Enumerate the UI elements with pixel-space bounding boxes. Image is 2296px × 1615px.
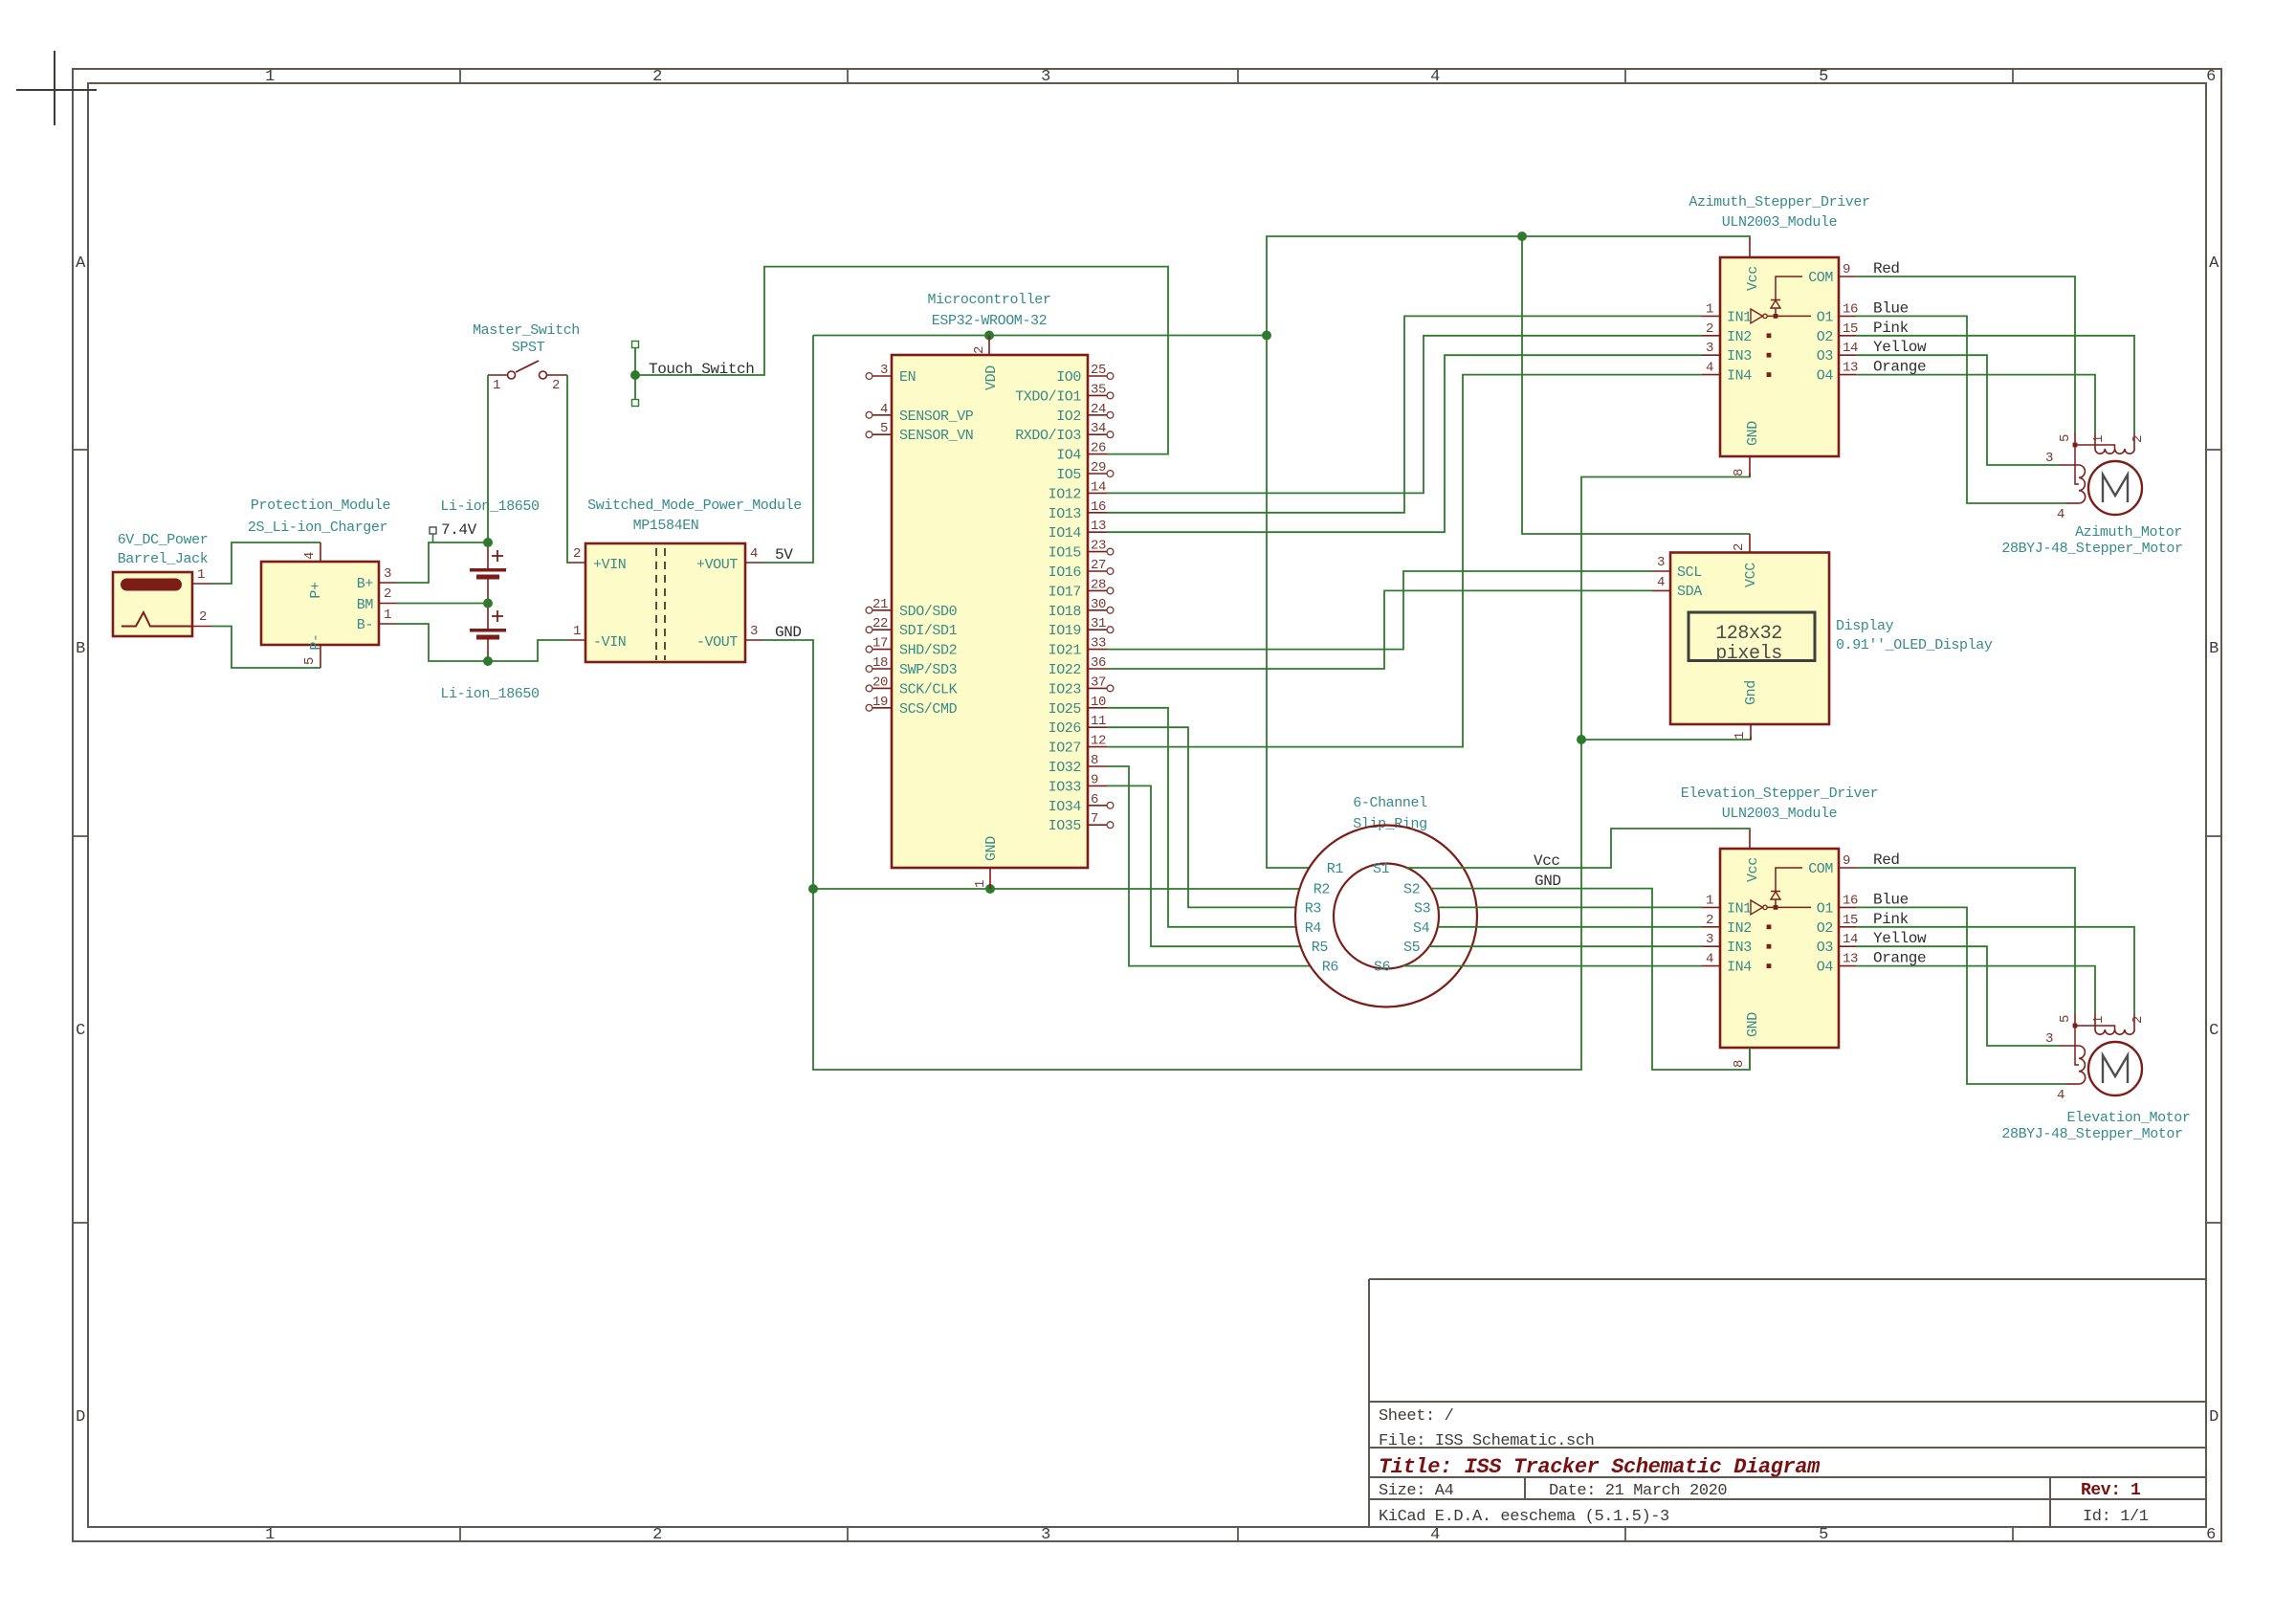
svg-text:Title: ISS Tracker Schematic D: Title: ISS Tracker Schematic Diagram xyxy=(1379,1455,1821,1479)
svg-text:S6: S6 xyxy=(1374,960,1391,976)
ESP32 pin 16 IO13 xyxy=(1088,512,1107,514)
svg-text:KiCad E.D.A. eeschema (5.1.5): KiCad E.D.A. eeschema (5.1.5)-3 xyxy=(1379,1508,1669,1526)
azimuth stepper driver U? input pins IN1-IN4 xyxy=(1702,315,1720,317)
svg-text:GND: GND xyxy=(1534,873,1561,890)
ESP32 pin 21 SDO/SD0 xyxy=(872,609,892,611)
svg-text:2: 2 xyxy=(1732,543,1747,551)
wire IO27 to azimuth IN4 xyxy=(1107,375,1702,747)
svg-text:IO32: IO32 xyxy=(1049,760,1081,776)
junction GND at ESP32 GND pin xyxy=(985,884,995,894)
svg-text:IN3: IN3 xyxy=(1727,940,1752,956)
wire IO12 to azimuth IN2 xyxy=(1107,336,1702,494)
svg-text:13: 13 xyxy=(1843,361,1858,376)
wire IO14 to azimuth IN3 xyxy=(1107,355,1702,532)
svg-text:30: 30 xyxy=(1091,597,1106,612)
ESP32 pin 9 IO33 xyxy=(1088,785,1107,786)
azimuth motor M? wire Red to pin5 xyxy=(1856,277,2075,432)
svg-text:IO14: IO14 xyxy=(1049,525,1082,542)
wire S1 to elevation Vcc xyxy=(1407,829,1750,868)
master switch pin 2 xyxy=(547,374,568,376)
ESP32 pin 20 SCK/CLK xyxy=(872,687,892,689)
svg-text:File: ISS Schematic.sch: File: ISS Schematic.sch xyxy=(1379,1432,1594,1450)
wire IO32 to slip ring R6 xyxy=(1107,766,1311,966)
azimuth motor M? wire Blue to pin4 xyxy=(1856,316,2065,503)
ESP32 pin 14 IO12 xyxy=(1088,492,1107,494)
svg-text:IO17: IO17 xyxy=(1049,584,1081,600)
protection pin 3 B+ xyxy=(379,582,396,584)
svg-text:9: 9 xyxy=(1843,853,1850,869)
slip ring inner circle xyxy=(1334,864,1439,969)
svg-text:8: 8 xyxy=(1091,753,1098,768)
master switch pin 1 xyxy=(488,374,508,376)
junction touch switch xyxy=(630,370,640,380)
svg-text:O2: O2 xyxy=(1817,329,1833,345)
azimuth stepper driver U? pin Vcc xyxy=(1749,238,1751,257)
svg-text:ESP32-WROOM-32: ESP32-WROOM-32 xyxy=(932,313,1047,329)
svg-text:22: 22 xyxy=(872,616,888,631)
slip ring outer circle xyxy=(1295,826,1477,1007)
svg-text:S1: S1 xyxy=(1373,861,1390,877)
svg-text:2: 2 xyxy=(573,546,581,562)
svg-text:19: 19 xyxy=(872,695,888,710)
svg-text:IO0: IO0 xyxy=(1056,369,1081,386)
svg-text:B-: B- xyxy=(357,617,373,633)
svg-text:SWP/SD3: SWP/SD3 xyxy=(899,662,958,678)
svg-text:IO23: IO23 xyxy=(1049,681,1082,697)
svg-text:IN1: IN1 xyxy=(1727,309,1752,325)
barrel jack pin 1 xyxy=(192,583,211,585)
ESP32 pin 12 IO27 xyxy=(1088,746,1107,748)
elevation motor M? wire Blue to pin4 xyxy=(1856,907,2065,1084)
svg-text:A: A xyxy=(76,254,86,273)
svg-text:S2: S2 xyxy=(1403,882,1420,898)
azimuth motor M? left coil xyxy=(2079,465,2086,503)
SMPS pin 1 -VIN xyxy=(568,639,585,641)
junction GND at SMPS riser xyxy=(808,884,818,894)
svg-text:Master_Switch: Master_Switch xyxy=(473,322,580,339)
junction display Vcc tap xyxy=(1517,232,1527,241)
svg-text:4: 4 xyxy=(1657,575,1665,590)
svg-text:IO15: IO15 xyxy=(1049,545,1082,562)
svg-text:IO25: IO25 xyxy=(1049,701,1082,718)
svg-text:D: D xyxy=(76,1408,85,1427)
azimuth stepper driver U? inverter buffer xyxy=(1751,309,1763,323)
svg-text:Gnd: Gnd xyxy=(1743,680,1759,705)
svg-text:Azimuth_Motor: Azimuth_Motor xyxy=(2075,524,2182,541)
elevation stepper driver U? input pins IN1-IN4 xyxy=(1702,906,1720,908)
svg-text:3: 3 xyxy=(1706,341,1713,356)
azimuth stepper driver U? pin 8 GND xyxy=(1749,456,1751,476)
svg-text:Vcc: Vcc xyxy=(1534,852,1560,870)
svg-text:15: 15 xyxy=(1843,913,1858,928)
junction battery bottom xyxy=(483,656,493,666)
ESP32 pin 23 IO15 xyxy=(1088,551,1107,553)
svg-text:4: 4 xyxy=(880,402,888,417)
protection pin 5 P- xyxy=(320,645,321,668)
svg-text:1: 1 xyxy=(265,68,275,86)
azimuth stepper driver U? output pins xyxy=(1839,276,1856,277)
elevation motor M? top coil xyxy=(2095,1029,2134,1034)
svg-text:16: 16 xyxy=(1843,301,1858,317)
elevation motor M? body circle M xyxy=(2088,1042,2142,1095)
svg-text:4: 4 xyxy=(750,546,758,562)
svg-text:R6: R6 xyxy=(1322,960,1339,976)
azimuth motor M? top coil xyxy=(2095,449,2134,454)
ESP32 pin 7 IO35 xyxy=(1088,824,1107,826)
SMPS isolation dashed lines xyxy=(655,548,657,660)
svg-text:3: 3 xyxy=(1041,1526,1050,1544)
svg-text:O2: O2 xyxy=(1817,920,1833,937)
svg-text:C: C xyxy=(2209,1022,2219,1040)
svg-text:13: 13 xyxy=(1091,519,1106,534)
svg-text:5: 5 xyxy=(2058,1015,2073,1023)
svg-text:GND: GND xyxy=(1745,1012,1761,1037)
svg-text:Date: 21 March 2020: Date: 21 March 2020 xyxy=(1549,1482,1727,1500)
ESP32 pin 26 IO4 xyxy=(1088,454,1107,455)
svg-text:5V: 5V xyxy=(775,546,793,564)
ESP32 pin 11 IO26 xyxy=(1088,726,1107,728)
ESP32 pin 2 VDD xyxy=(988,336,990,356)
elevation stepper driver U? channel squares xyxy=(1767,924,1772,929)
svg-text:SCS/CMD: SCS/CMD xyxy=(899,701,958,718)
ESP32 pin 8 IO32 xyxy=(1088,765,1107,767)
SMPS pin 2 +VIN xyxy=(568,562,585,564)
svg-text:1: 1 xyxy=(2091,1016,2107,1024)
svg-text:R3: R3 xyxy=(1305,900,1322,917)
elevation motor M? wire Yellow to pin3 xyxy=(1856,946,2059,1046)
ESP32 pin 13 IO14 xyxy=(1088,531,1107,533)
svg-text:EN: EN xyxy=(899,369,916,386)
power flag 7.4V square xyxy=(430,527,436,534)
ESP32 pin 30 IO18 xyxy=(1088,609,1107,611)
svg-text:1: 1 xyxy=(973,880,988,888)
svg-text:6V_DC_Power: 6V_DC_Power xyxy=(118,532,209,548)
svg-text:8: 8 xyxy=(1732,469,1747,476)
ESP32 pin 19 SCS/CMD xyxy=(872,707,892,709)
svg-text:IN3: IN3 xyxy=(1727,348,1752,365)
svg-text:O1: O1 xyxy=(1817,309,1834,325)
wire S4 to elevation IN2 xyxy=(1438,926,1702,928)
svg-text:SCL: SCL xyxy=(1677,564,1702,581)
azimuth motor M? pin 2 xyxy=(2133,432,2135,449)
touch switch wire vertical xyxy=(634,348,636,400)
svg-text:2: 2 xyxy=(1706,321,1713,337)
svg-text:Microcontroller: Microcontroller xyxy=(927,292,1050,308)
svg-text:3: 3 xyxy=(2045,451,2053,466)
svg-text:+VIN: +VIN xyxy=(593,557,626,573)
svg-text:IN1: IN1 xyxy=(1727,900,1752,917)
svg-text:25: 25 xyxy=(1091,363,1106,378)
svg-text:IO19: IO19 xyxy=(1049,623,1081,639)
ESP32 pin 5 SENSOR_VN xyxy=(872,433,892,435)
svg-text:R2: R2 xyxy=(1314,882,1330,898)
azimuth motor M? pin 1 xyxy=(2094,432,2096,449)
svg-text:2: 2 xyxy=(2130,1016,2146,1024)
svg-text:4: 4 xyxy=(1430,1526,1440,1544)
svg-text:SHD/SD2: SHD/SD2 xyxy=(899,643,957,659)
svg-text:1: 1 xyxy=(265,1526,275,1544)
svg-text:Elevation_Motor: Elevation_Motor xyxy=(2066,1110,2190,1126)
ESP32 pin 29 IO5 xyxy=(1088,473,1107,475)
svg-text:16: 16 xyxy=(1091,499,1106,515)
svg-text:3: 3 xyxy=(1657,555,1665,570)
elevation motor M? pin 1 xyxy=(2094,1013,2096,1029)
frame column ticks xyxy=(459,69,461,83)
wire IO21 to display SCL xyxy=(1107,571,1652,650)
svg-text:14: 14 xyxy=(1091,479,1106,495)
wire BM to battery middle xyxy=(396,603,488,605)
svg-text:B+: B+ xyxy=(357,576,374,592)
ESP32 pin 1 GND xyxy=(989,868,991,889)
wire IO25 to slip ring R4 xyxy=(1107,708,1296,927)
svg-text:1: 1 xyxy=(2091,435,2107,443)
svg-text:5: 5 xyxy=(880,421,888,436)
svg-text:Li-ion_18650: Li-ion_18650 xyxy=(440,686,540,702)
frame row ticks xyxy=(73,449,88,451)
svg-text:RXDO/IO3: RXDO/IO3 xyxy=(1015,428,1081,444)
svg-text:SPST: SPST xyxy=(512,340,545,356)
SMPS pin 3 -VOUT xyxy=(745,639,762,641)
svg-text:IO16: IO16 xyxy=(1049,564,1082,581)
svg-text:IO26: IO26 xyxy=(1049,720,1082,737)
ESP32 pin 3 EN xyxy=(872,375,892,377)
svg-text:R4: R4 xyxy=(1305,920,1322,937)
svg-text:Protection_Module: Protection_Module xyxy=(251,498,391,514)
svg-text:S3: S3 xyxy=(1414,900,1431,917)
svg-text:20: 20 xyxy=(872,675,888,690)
wire touch switch to IO4 xyxy=(635,267,1168,454)
svg-text:2S_Li-ion_Charger: 2S_Li-ion_Charger xyxy=(248,520,387,536)
wire 5V down to slip ring R1 xyxy=(1267,336,1310,869)
wire S2 GND to elevation GND xyxy=(1431,889,1750,1070)
svg-text:Azimuth_Stepper_Driver: Azimuth_Stepper_Driver xyxy=(1689,194,1869,210)
protection pin 4 P+ xyxy=(320,542,321,562)
svg-text:4: 4 xyxy=(2057,1088,2064,1103)
svg-text:33: 33 xyxy=(1091,636,1106,652)
wire 5V bus to VDD xyxy=(813,335,1267,337)
svg-text:4: 4 xyxy=(1706,952,1713,967)
svg-text:24: 24 xyxy=(1091,402,1106,417)
svg-text:IO21: IO21 xyxy=(1049,643,1082,659)
wire 5V up and over to azimuth Vcc xyxy=(1267,236,1750,336)
svg-text:3: 3 xyxy=(1706,932,1713,947)
display pin 3 SCL xyxy=(1652,570,1670,572)
svg-text:35: 35 xyxy=(1091,382,1106,397)
wire display Vcc drop xyxy=(1522,236,1750,534)
svg-text:Sheet: /: Sheet: / xyxy=(1379,1407,1454,1426)
svg-text:17: 17 xyxy=(872,636,888,652)
svg-text:23: 23 xyxy=(1091,539,1106,554)
ESP32 pin 22 SDI/SD1 xyxy=(872,629,892,631)
svg-text:+VOUT: +VOUT xyxy=(696,557,738,573)
barrel jack 6V_DC_Power body xyxy=(113,572,192,636)
svg-text:D: D xyxy=(2209,1408,2219,1427)
svg-text:Orange: Orange xyxy=(1873,359,1926,376)
svg-text:5: 5 xyxy=(302,657,318,665)
wire IO13 to azimuth IN1 xyxy=(1107,316,1702,512)
svg-text:16: 16 xyxy=(1843,893,1858,908)
azimuth stepper driver U? channel squares xyxy=(1767,333,1772,338)
ESP32 pin 24 IO2 xyxy=(1088,414,1107,416)
svg-text:O3: O3 xyxy=(1817,940,1834,956)
ESP32 pin 6 IO34 xyxy=(1088,805,1107,807)
svg-text:1: 1 xyxy=(1706,301,1713,317)
svg-text:SENSOR_VN: SENSOR_VN xyxy=(899,428,973,444)
svg-text:B: B xyxy=(2209,640,2219,658)
svg-text:IN4: IN4 xyxy=(1727,960,1752,976)
svg-text:31: 31 xyxy=(1091,616,1106,631)
svg-text:4: 4 xyxy=(1706,361,1713,376)
svg-text:2: 2 xyxy=(199,609,207,625)
wire IO26 to slip ring R3 xyxy=(1107,727,1295,907)
svg-text:GND: GND xyxy=(1745,421,1761,446)
svg-text:10: 10 xyxy=(1091,695,1106,710)
elevation stepper driver U? pin 8 GND xyxy=(1749,1048,1751,1068)
corner crosshair mark xyxy=(54,51,55,125)
azimuth motor M? body circle M xyxy=(2088,461,2142,515)
svg-text:13: 13 xyxy=(1843,952,1858,967)
elevation motor M? pin 3 xyxy=(2059,1045,2079,1047)
svg-text:3: 3 xyxy=(384,566,391,582)
svg-text:IO35: IO35 xyxy=(1049,818,1082,834)
barrel jack sleeve contact zigzag xyxy=(121,612,192,627)
junction 5V at x1324 xyxy=(1262,331,1271,341)
svg-text:4: 4 xyxy=(1430,68,1440,86)
svg-text:26: 26 xyxy=(1091,441,1106,456)
azimuth stepper driver U? ULN2003 body xyxy=(1720,257,1839,456)
svg-text:3: 3 xyxy=(1041,68,1050,86)
svg-text:ULN2003_Module: ULN2003_Module xyxy=(1722,806,1838,822)
svg-text:O4: O4 xyxy=(1817,960,1834,976)
svg-text:0.91''_OLED_Display: 0.91''_OLED_Display xyxy=(1836,637,1993,653)
svg-text:BM: BM xyxy=(357,597,374,613)
svg-text:P+: P+ xyxy=(308,582,324,599)
svg-text:2: 2 xyxy=(652,1526,662,1544)
svg-text:5: 5 xyxy=(1819,68,1828,86)
svg-text:-VOUT: -VOUT xyxy=(696,634,738,651)
wire GND bus under ESP32 to R2 xyxy=(813,888,1300,890)
svg-text:Size: A4: Size: A4 xyxy=(1379,1482,1454,1500)
svg-text:1: 1 xyxy=(1733,732,1748,740)
azimuth motor M? wire Orange to pin1 xyxy=(1856,375,2095,432)
svg-text:6: 6 xyxy=(2206,68,2216,86)
svg-text:Blue: Blue xyxy=(1873,891,1909,908)
svg-text:Yellow: Yellow xyxy=(1873,930,1927,947)
svg-text:A: A xyxy=(2209,254,2219,273)
svg-text:6-Channel: 6-Channel xyxy=(1353,795,1427,811)
svg-text:11: 11 xyxy=(1091,714,1106,729)
azimuth motor M? wire Yellow to pin3 xyxy=(1856,355,2059,465)
svg-text:IO2: IO2 xyxy=(1056,409,1081,425)
wire switch pin1 down to battery xyxy=(487,375,489,542)
svg-text:Rev: 1: Rev: 1 xyxy=(2081,1481,2141,1500)
ESP32 pin 37 IO23 xyxy=(1088,687,1107,689)
protection pin 2 BM xyxy=(379,603,396,605)
wire switch pin2 down to +VIN xyxy=(567,375,568,563)
azimuth motor M? pin 4 xyxy=(2065,502,2079,504)
svg-text:IO27: IO27 xyxy=(1049,741,1081,757)
display OLED body xyxy=(1670,553,1829,725)
svg-text:Li-ion_18650: Li-ion_18650 xyxy=(440,498,540,515)
display pin 4 SDA xyxy=(1652,589,1670,591)
wire jack pin2 to protection P- xyxy=(211,627,320,669)
elevation motor M? wire Pink to pin2 xyxy=(1856,927,2134,1013)
svg-text:Barrel_Jack: Barrel_Jack xyxy=(118,551,209,567)
wire S6 to elevation IN4 xyxy=(1403,965,1702,967)
svg-text:9: 9 xyxy=(1843,262,1850,277)
azimuth motor M? wire Pink to pin2 xyxy=(1856,336,2134,432)
title block frame xyxy=(1369,1278,2206,1280)
wire IO33 to slip ring R5 xyxy=(1107,785,1300,946)
elevation motor M? wire Red to pin5 xyxy=(1856,868,2075,1013)
svg-text:Switched_Mode_Power_Module: Switched_Mode_Power_Module xyxy=(587,498,802,514)
svg-text:TXDO/IO1: TXDO/IO1 xyxy=(1015,388,1081,405)
svg-text:Id: 1/1: Id: 1/1 xyxy=(2083,1508,2149,1526)
elevation stepper driver U? inverter buffer xyxy=(1751,900,1763,915)
protection module 2S_Li-ion_Charger body xyxy=(261,562,379,645)
svg-text:5: 5 xyxy=(1819,1526,1828,1544)
svg-text:28: 28 xyxy=(1091,577,1106,592)
barrel jack center pin bar xyxy=(121,579,182,591)
svg-text:Vcc: Vcc xyxy=(1745,857,1761,882)
svg-text:IO4: IO4 xyxy=(1056,448,1081,464)
svg-text:36: 36 xyxy=(1091,655,1106,671)
svg-text:IO18: IO18 xyxy=(1049,604,1082,620)
svg-text:12: 12 xyxy=(1091,734,1106,749)
junction VDD xyxy=(984,331,994,341)
svg-text:O1: O1 xyxy=(1817,900,1834,917)
elevation stepper driver U? pin Vcc xyxy=(1749,830,1751,849)
svg-text:7.4V: 7.4V xyxy=(441,521,477,539)
svg-text:R5: R5 xyxy=(1312,940,1329,956)
svg-text:S4: S4 xyxy=(1413,920,1430,937)
wire display Gnd xyxy=(1581,737,1751,740)
svg-text:7: 7 xyxy=(1091,811,1098,827)
elevation motor M? left coil xyxy=(2079,1046,2086,1084)
svg-text:1: 1 xyxy=(197,567,205,583)
elevation stepper driver U? output pins xyxy=(1839,867,1856,869)
svg-text:Blue: Blue xyxy=(1873,299,1909,317)
svg-text:SDO/SD0: SDO/SD0 xyxy=(899,604,958,620)
svg-text:pixels: pixels xyxy=(1715,643,1782,665)
svg-text:4: 4 xyxy=(302,552,318,560)
ESP32 pin 10 IO25 xyxy=(1088,707,1107,709)
svg-text:2: 2 xyxy=(1706,913,1713,928)
elevation stepper driver U? ULN2003 body xyxy=(1720,849,1839,1048)
ESP32 pin 33 IO21 xyxy=(1088,649,1107,651)
svg-text:Elevation_Stepper_Driver: Elevation_Stepper_Driver xyxy=(1681,785,1878,802)
battery 1 top cell xyxy=(487,542,489,569)
protection pin 1 B- xyxy=(379,623,396,625)
svg-text:GND: GND xyxy=(775,624,802,641)
svg-text:5: 5 xyxy=(2058,434,2073,442)
svg-text:IN2: IN2 xyxy=(1727,920,1752,937)
svg-text:C: C xyxy=(76,1022,85,1040)
svg-text:GND: GND xyxy=(983,836,1000,861)
svg-text:3: 3 xyxy=(2045,1031,2053,1047)
ESP32 pin 35 TXDO/IO1 xyxy=(1088,394,1107,396)
svg-text:29: 29 xyxy=(1091,460,1106,476)
svg-text:2: 2 xyxy=(384,586,391,602)
svg-text:IO34: IO34 xyxy=(1049,799,1082,815)
svg-text:SENSOR_VP: SENSOR_VP xyxy=(899,409,974,425)
svg-text:14: 14 xyxy=(1843,341,1858,356)
svg-text:IO22: IO22 xyxy=(1049,662,1081,678)
battery 2 bottom cell xyxy=(487,604,489,630)
svg-text:IO5: IO5 xyxy=(1056,467,1081,483)
display pin 2 VCC xyxy=(1749,534,1751,553)
microcontroller ESP32 body xyxy=(892,355,1088,868)
